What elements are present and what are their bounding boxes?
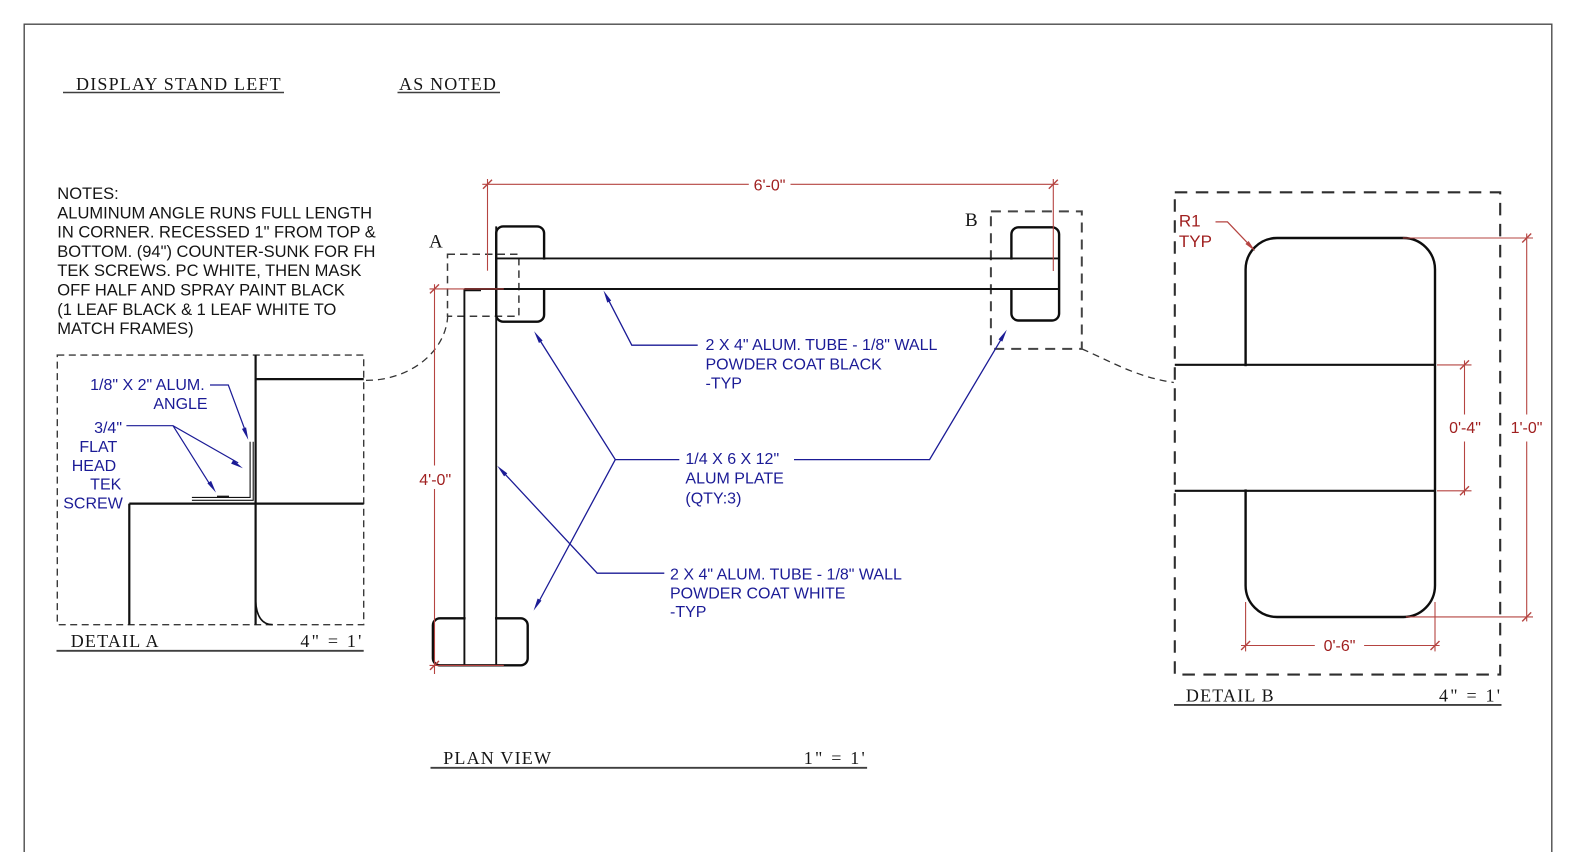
horizontal tube bottom line — [464, 288, 1058, 290]
plate at B (rounded) — [1011, 227, 1059, 320]
svg-text:(QTY:3): (QTY:3) — [685, 491, 741, 508]
svg-text:BOTTOM. (94") COUNTER-SUNK FOR: BOTTOM. (94") COUNTER-SUNK FOR FH — [57, 243, 375, 261]
6'-0" dimension — [482, 179, 1058, 271]
svg-text:1" = 1': 1" = 1' — [804, 748, 867, 768]
detail A frame top horizontal edge — [256, 378, 364, 380]
label: 1/8" X 2" ALUM. ANGLE — [90, 377, 207, 413]
svg-text:B: B — [965, 210, 979, 231]
bottom plate (rounded) — [433, 618, 528, 665]
svg-text:R1: R1 — [1179, 212, 1201, 231]
svg-text:DETAIL B: DETAIL B — [1186, 686, 1275, 706]
dashed match curve from plan to detail B — [1082, 349, 1174, 383]
vertical tube left line — [463, 289, 465, 665]
svg-text:AS NOTED: AS NOTED — [399, 74, 497, 94]
svg-text:POWDER COAT WHITE: POWDER COAT WHITE — [670, 586, 845, 603]
aluminum angle section — [192, 442, 253, 501]
plate at A (rounded) — [496, 226, 544, 321]
R1 TYP label — [1179, 212, 1212, 252]
svg-text:TEK SCREWS. PC WHITE, THEN MAS: TEK SCREWS. PC WHITE, THEN MASK — [57, 262, 361, 280]
vertical tube top cap line — [464, 290, 481, 292]
detail A wall horizontal line — [129, 503, 363, 505]
notes text block — [57, 185, 376, 338]
svg-text:6'-0": 6'-0" — [754, 178, 786, 195]
svg-text:(1 LEAF BLACK & 1 LEAF WHITE T: (1 LEAF BLACK & 1 LEAF WHITE TO — [57, 301, 336, 319]
leader: plate label left arrows — [537, 335, 1004, 605]
title underline — [63, 92, 284, 94]
detail A frame vertical edge — [255, 355, 257, 625]
leader to angle leg — [126, 426, 238, 463]
svg-text:HEAD: HEAD — [72, 458, 116, 475]
svg-text:ALUMINUM ANGLE RUNS FULL LENGT: ALUMINUM ANGLE RUNS FULL LENGTH — [57, 204, 372, 222]
horizontal tube top line — [496, 257, 1059, 259]
detail B title underline — [1174, 704, 1502, 706]
svg-text:2 X 4" ALUM. TUBE - 1/8" WALL: 2 X 4" ALUM. TUBE - 1/8" WALL — [706, 337, 938, 354]
svg-text:DISPLAY STAND LEFT: DISPLAY STAND LEFT — [76, 74, 282, 94]
svg-text:-TYP: -TYP — [706, 376, 742, 393]
svg-text:ALUM PLATE: ALUM PLATE — [685, 470, 783, 487]
DETAIL A dashed boundary box — [57, 355, 363, 625]
svg-text:SCREW: SCREW — [63, 496, 123, 513]
svg-text:TEK: TEK — [90, 477, 121, 494]
svg-text:DETAIL A: DETAIL A — [71, 631, 160, 651]
svg-text:POWDER COAT BLACK: POWDER COAT BLACK — [706, 356, 883, 373]
detail A title underline — [57, 650, 364, 652]
0'-6" dimension — [1241, 602, 1440, 651]
label: 2x4 alum tube black — [706, 337, 938, 393]
svg-text:NOTES:: NOTES: — [57, 185, 118, 203]
plan: section box A dashed — [448, 254, 519, 316]
1'-0" dimension — [1403, 234, 1533, 622]
label: 3/4" FLAT HEAD TEK SCREW — [63, 420, 123, 513]
svg-text:IN CORNER. RECESSED 1" FROM TO: IN CORNER. RECESSED 1" FROM TOP & — [57, 224, 376, 242]
detail B tube top line — [1175, 364, 1435, 366]
svg-text:3/4": 3/4" — [94, 420, 122, 437]
svg-text:2 X 4" ALUM. TUBE - 1/8" WALL: 2 X 4" ALUM. TUBE - 1/8" WALL — [670, 567, 902, 584]
svg-text:PLAN VIEW: PLAN VIEW — [443, 748, 552, 768]
gap in detail B plate left edge where tube crosses — [1242, 366, 1249, 489]
dashed match curve from detail A to plan — [366, 313, 448, 380]
svg-text:1'-0": 1'-0" — [1511, 420, 1543, 437]
plan title underline — [431, 767, 868, 769]
svg-text:4" = 1': 4" = 1' — [300, 631, 363, 651]
svg-text:-TYP: -TYP — [670, 604, 706, 621]
gap in plate A right edge where tube crosses — [539, 260, 547, 289]
svg-text:4'-0": 4'-0" — [419, 472, 451, 489]
svg-text:1/8" X 2" ALUM.: 1/8" X 2" ALUM. — [90, 377, 205, 394]
DETAIL B dashed boundary box — [1175, 192, 1500, 674]
svg-text:FLAT: FLAT — [79, 439, 117, 456]
detail A corner radius arc — [256, 601, 273, 625]
label: 1/4 x 6 x 12 alum plate — [685, 451, 783, 507]
vertical tube right line — [495, 226, 497, 665]
leader: black tube label — [606, 295, 698, 345]
svg-text:4" = 1': 4" = 1' — [1439, 686, 1502, 706]
AS NOTED underline — [398, 92, 501, 94]
leader: white tube label — [501, 470, 665, 574]
detail B tube bottom line — [1175, 490, 1435, 492]
label: 2x4 alum tube white — [670, 567, 902, 621]
gap in bottom plate top edge where tube crosses — [466, 615, 495, 622]
leader to angle — [210, 385, 247, 434]
svg-text:ANGLE: ANGLE — [153, 396, 207, 413]
plan: section box B dashed — [991, 211, 1082, 349]
gap in plate B left edge where tube crosses — [1008, 260, 1016, 289]
detail A wall vertical line — [128, 504, 130, 625]
R1 leader — [1216, 222, 1253, 248]
svg-text:TYP: TYP — [1179, 232, 1212, 251]
svg-text:0'-4": 0'-4" — [1449, 420, 1481, 437]
svg-text:0'-6": 0'-6" — [1324, 638, 1356, 655]
svg-text:A: A — [429, 232, 444, 253]
0'-4" dimension — [1437, 360, 1472, 495]
tek screw head mark — [217, 495, 229, 497]
svg-text:OFF HALF AND SPRAY PAINT BLACK: OFF HALF AND SPRAY PAINT BLACK — [57, 282, 345, 300]
4'-0" dimension — [430, 284, 504, 674]
svg-text:1/4 X 6 X 12": 1/4 X 6 X 12" — [685, 451, 779, 468]
leader to screw — [173, 426, 212, 487]
detail B plate (rounded) — [1246, 238, 1435, 617]
svg-text:MATCH FRAMES): MATCH FRAMES) — [57, 320, 193, 338]
